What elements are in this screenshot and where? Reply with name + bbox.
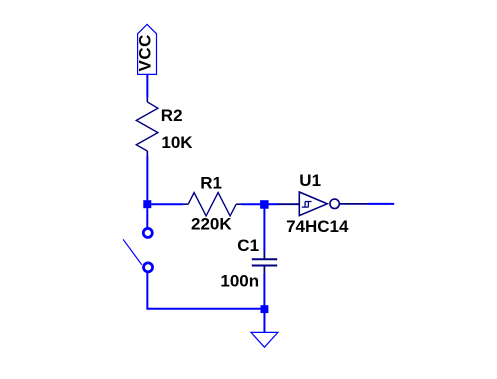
svg-text:VCC: VCC: [136, 34, 155, 71]
svg-text:R1: R1: [200, 173, 222, 192]
svg-text:U1: U1: [299, 171, 321, 190]
svg-text:C1: C1: [237, 236, 259, 255]
svg-text:10K: 10K: [161, 133, 193, 152]
svg-text:100n: 100n: [220, 271, 259, 290]
svg-text:74HC14: 74HC14: [286, 217, 349, 236]
svg-text:R2: R2: [161, 106, 183, 125]
svg-text:220K: 220K: [191, 215, 232, 234]
